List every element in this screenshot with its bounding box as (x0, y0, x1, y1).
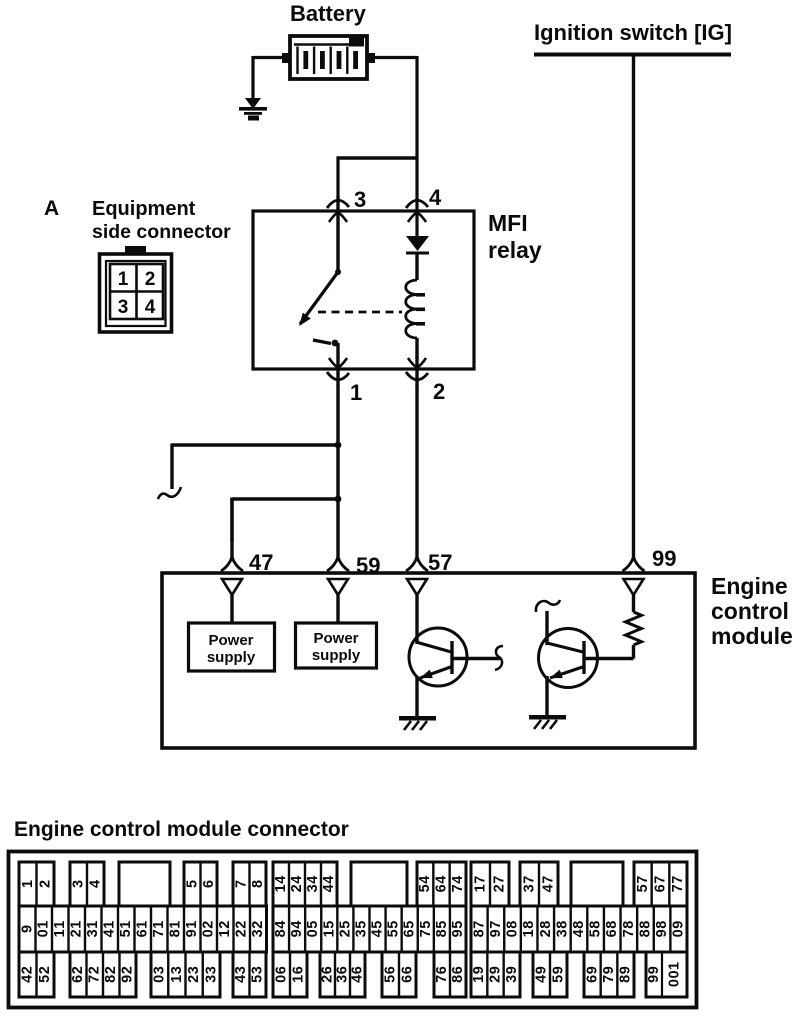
svg-text:1: 1 (135, 921, 151, 929)
svg-text:7: 7 (670, 876, 686, 884)
svg-text:6: 6 (291, 966, 307, 974)
svg-text:3: 3 (250, 966, 266, 974)
svg-text:8: 8 (637, 921, 653, 929)
svg-text:1: 1 (169, 975, 185, 983)
svg-text:99: 99 (652, 546, 676, 571)
svg-text:6: 6 (320, 966, 336, 974)
svg-text:4: 4 (273, 921, 289, 929)
svg-text:7: 7 (492, 876, 508, 884)
svg-text:8: 8 (273, 929, 289, 937)
svg-text:5: 5 (402, 921, 418, 929)
svg-text:2: 2 (250, 921, 266, 929)
svg-text:1: 1 (350, 380, 362, 405)
svg-text:control: control (711, 598, 789, 624)
svg-text:7: 7 (233, 880, 249, 888)
svg-text:relay: relay (488, 237, 542, 263)
svg-text:side connector: side connector (92, 221, 231, 243)
svg-text:6: 6 (135, 929, 151, 937)
svg-text:5: 5 (386, 921, 402, 929)
svg-text:8: 8 (521, 921, 537, 929)
svg-text:0: 0 (152, 975, 168, 983)
svg-text:5: 5 (417, 884, 433, 892)
svg-text:4: 4 (273, 876, 289, 884)
svg-text:1: 1 (85, 921, 101, 929)
svg-text:6: 6 (450, 966, 466, 974)
svg-text:1: 1 (291, 975, 307, 983)
svg-text:4: 4 (450, 876, 466, 884)
svg-text:2: 2 (87, 966, 103, 974)
svg-text:2: 2 (20, 966, 36, 974)
svg-text:2: 2 (492, 884, 508, 892)
svg-text:0: 0 (274, 975, 290, 983)
svg-text:2: 2 (217, 921, 233, 929)
svg-text:2: 2 (37, 880, 53, 888)
svg-text:9: 9 (534, 966, 550, 974)
svg-text:8: 8 (538, 921, 554, 929)
svg-text:6: 6 (274, 966, 290, 974)
svg-text:8: 8 (471, 929, 487, 937)
svg-text:5: 5 (250, 975, 266, 983)
svg-text:9: 9 (488, 929, 504, 937)
svg-text:6: 6 (201, 880, 217, 888)
svg-text:8: 8 (588, 921, 604, 929)
svg-text:8: 8 (505, 921, 521, 929)
svg-text:1: 1 (168, 921, 184, 929)
svg-text:7: 7 (151, 929, 167, 937)
svg-text:2: 2 (234, 929, 250, 937)
svg-text:5: 5 (321, 921, 337, 929)
svg-text:1: 1 (521, 929, 537, 937)
svg-text:1: 1 (273, 884, 289, 892)
svg-text:Power: Power (208, 632, 253, 649)
svg-text:8: 8 (434, 929, 450, 937)
svg-text:4: 4 (20, 975, 36, 983)
svg-text:module: module (711, 623, 793, 649)
svg-text:3: 3 (522, 884, 538, 892)
svg-text:supply: supply (312, 647, 361, 664)
svg-text:2: 2 (289, 884, 305, 892)
svg-text:1: 1 (69, 921, 85, 929)
svg-text:9: 9 (646, 975, 662, 983)
svg-text:2: 2 (337, 929, 353, 937)
svg-text:3: 3 (554, 929, 570, 937)
svg-text:5: 5 (418, 921, 434, 929)
svg-text:8: 8 (571, 921, 587, 929)
svg-text:9: 9 (471, 966, 487, 974)
svg-text:1: 1 (52, 929, 68, 937)
svg-text:Engine: Engine (711, 573, 788, 599)
svg-text:0: 0 (667, 970, 683, 978)
svg-text:3: 3 (233, 966, 249, 974)
svg-text:7: 7 (621, 929, 637, 937)
svg-text:4: 4 (289, 876, 305, 884)
svg-text:2: 2 (70, 966, 86, 974)
svg-text:1: 1 (217, 929, 233, 937)
svg-text:1: 1 (184, 921, 200, 929)
svg-text:4: 4 (305, 876, 321, 884)
svg-text:5: 5 (383, 975, 399, 983)
svg-text:2: 2 (69, 929, 85, 937)
svg-text:2: 2 (103, 966, 119, 974)
svg-text:3: 3 (186, 966, 202, 974)
svg-text:6: 6 (350, 966, 366, 974)
svg-text:5: 5 (370, 921, 386, 929)
svg-text:8: 8 (604, 921, 620, 929)
svg-text:57: 57 (428, 550, 452, 575)
svg-text:6: 6 (402, 929, 418, 937)
svg-text:2: 2 (120, 966, 136, 974)
svg-text:0: 0 (201, 929, 217, 937)
svg-text:0: 0 (505, 929, 521, 937)
svg-text:4: 4 (321, 884, 337, 892)
svg-text:2: 2 (234, 921, 250, 929)
svg-text:4: 4 (541, 884, 557, 892)
svg-text:5: 5 (551, 975, 567, 983)
svg-text:2: 2 (320, 975, 336, 983)
svg-text:2: 2 (186, 975, 202, 983)
svg-text:0: 0 (667, 979, 683, 987)
svg-text:8: 8 (168, 929, 184, 937)
svg-text:7: 7 (635, 876, 651, 884)
svg-text:5: 5 (305, 921, 321, 929)
svg-text:9: 9 (488, 966, 504, 974)
svg-text:6: 6 (584, 975, 600, 983)
svg-text:8: 8 (103, 975, 119, 983)
svg-text:9: 9 (584, 966, 600, 974)
svg-text:8: 8 (637, 929, 653, 937)
svg-text:1: 1 (36, 921, 52, 929)
svg-text:5: 5 (184, 880, 200, 888)
svg-text:6: 6 (653, 884, 669, 892)
svg-text:7: 7 (473, 876, 489, 884)
svg-text:8: 8 (654, 921, 670, 929)
svg-text:8: 8 (450, 975, 466, 983)
svg-text:7: 7 (670, 884, 686, 892)
svg-text:6: 6 (335, 966, 351, 974)
svg-text:5: 5 (434, 921, 450, 929)
svg-text:3: 3 (203, 966, 219, 974)
svg-text:Engine control module connecto: Engine control module connector (14, 818, 349, 841)
svg-text:5: 5 (353, 921, 369, 929)
svg-text:4: 4 (102, 929, 118, 937)
svg-text:7: 7 (522, 876, 538, 884)
svg-text:7: 7 (418, 929, 434, 937)
svg-text:1: 1 (321, 929, 337, 937)
svg-text:7: 7 (488, 921, 504, 929)
svg-text:1: 1 (118, 921, 134, 929)
svg-text:2: 2 (488, 975, 504, 983)
svg-text:7: 7 (450, 884, 466, 892)
svg-text:9: 9 (450, 929, 466, 937)
svg-text:4: 4 (321, 876, 337, 884)
svg-text:Ignition switch [IG]: Ignition switch [IG] (534, 20, 732, 45)
svg-text:4: 4 (370, 929, 386, 937)
svg-text:6: 6 (434, 966, 450, 974)
svg-text:6: 6 (434, 884, 450, 892)
svg-text:5: 5 (450, 921, 466, 929)
svg-text:1: 1 (52, 921, 68, 929)
svg-text:3: 3 (504, 975, 520, 983)
svg-text:7: 7 (601, 975, 617, 983)
svg-text:3: 3 (353, 929, 369, 937)
svg-text:9: 9 (289, 929, 305, 937)
svg-text:9: 9 (120, 975, 136, 983)
svg-text:4: 4 (145, 297, 156, 318)
svg-text:1: 1 (471, 975, 487, 983)
svg-text:3: 3 (305, 884, 321, 892)
svg-text:5: 5 (118, 929, 134, 937)
svg-text:5: 5 (588, 929, 604, 937)
svg-text:5: 5 (635, 884, 651, 892)
svg-text:3: 3 (85, 929, 101, 937)
svg-text:4: 4 (88, 880, 104, 888)
svg-text:4: 4 (429, 185, 442, 210)
svg-text:7: 7 (541, 876, 557, 884)
svg-text:Equipment: Equipment (92, 198, 196, 220)
svg-text:1: 1 (20, 880, 36, 888)
svg-text:2: 2 (433, 379, 445, 404)
svg-text:Battery: Battery (290, 1, 367, 26)
svg-text:4: 4 (417, 876, 433, 884)
svg-text:3: 3 (71, 880, 87, 888)
svg-text:A: A (44, 197, 59, 220)
svg-text:4: 4 (534, 975, 550, 983)
svg-text:2: 2 (201, 921, 217, 929)
svg-text:0: 0 (671, 929, 687, 937)
svg-text:Power: Power (313, 630, 358, 647)
svg-text:5: 5 (386, 929, 402, 937)
svg-text:8: 8 (621, 921, 637, 929)
svg-text:7: 7 (653, 876, 669, 884)
svg-text:5: 5 (337, 921, 353, 929)
svg-text:9: 9 (601, 966, 617, 974)
svg-text:2: 2 (538, 929, 554, 937)
svg-text:7: 7 (434, 975, 450, 983)
svg-text:1: 1 (102, 921, 118, 929)
svg-text:9: 9 (646, 966, 662, 974)
svg-text:9: 9 (19, 925, 35, 933)
svg-text:1: 1 (151, 921, 167, 929)
svg-text:9: 9 (184, 929, 200, 937)
svg-text:3: 3 (335, 975, 351, 983)
svg-text:2: 2 (37, 966, 53, 974)
svg-text:9: 9 (504, 966, 520, 974)
svg-text:7: 7 (471, 921, 487, 929)
svg-text:supply: supply (207, 649, 256, 666)
svg-text:5: 5 (37, 975, 53, 983)
svg-text:6: 6 (383, 966, 399, 974)
svg-text:8: 8 (250, 880, 266, 888)
svg-text:6: 6 (400, 966, 416, 974)
svg-text:0: 0 (36, 929, 52, 937)
svg-text:3: 3 (169, 966, 185, 974)
svg-text:3: 3 (203, 975, 219, 983)
svg-text:4: 4 (233, 975, 249, 983)
svg-text:3: 3 (354, 187, 366, 212)
svg-text:4: 4 (350, 975, 366, 983)
svg-text:1: 1 (473, 884, 489, 892)
svg-text:9: 9 (654, 929, 670, 937)
svg-text:9: 9 (618, 966, 634, 974)
svg-text:9: 9 (671, 921, 687, 929)
svg-text:47: 47 (249, 550, 273, 575)
svg-text:4: 4 (571, 929, 587, 937)
svg-text:2: 2 (145, 269, 156, 290)
svg-text:9: 9 (551, 966, 567, 974)
svg-text:8: 8 (618, 975, 634, 983)
svg-text:59: 59 (356, 553, 380, 578)
svg-text:7: 7 (87, 975, 103, 983)
svg-text:3: 3 (250, 929, 266, 937)
svg-text:MFI: MFI (488, 210, 528, 236)
svg-text:1: 1 (118, 269, 129, 290)
svg-text:4: 4 (434, 876, 450, 884)
svg-text:6: 6 (400, 975, 416, 983)
svg-text:6: 6 (604, 929, 620, 937)
svg-text:4: 4 (289, 921, 305, 929)
svg-text:3: 3 (118, 297, 129, 318)
svg-text:8: 8 (554, 921, 570, 929)
svg-text:0: 0 (305, 929, 321, 937)
svg-text:1: 1 (667, 962, 683, 970)
svg-text:3: 3 (152, 966, 168, 974)
svg-text:6: 6 (70, 975, 86, 983)
